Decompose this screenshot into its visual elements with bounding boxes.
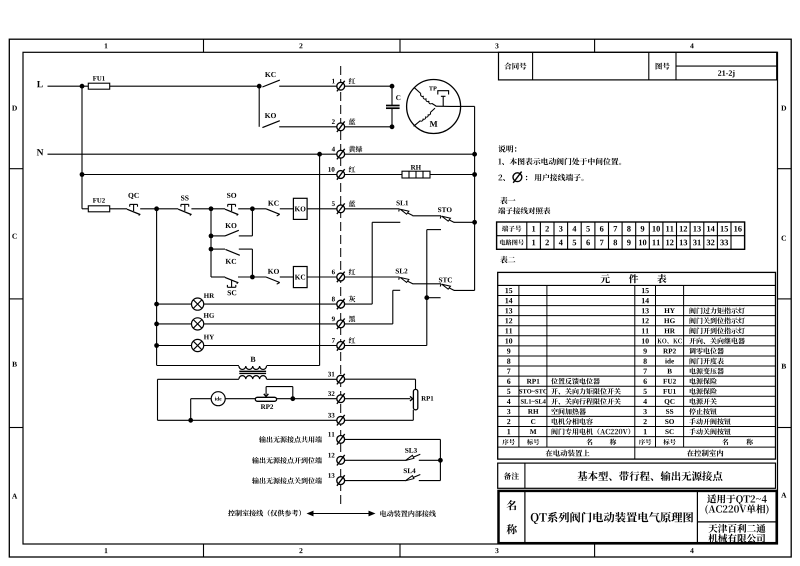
meter ide valve position (211, 392, 225, 406)
label SC (228, 290, 237, 295)
lamp HG closed-position (192, 318, 204, 330)
wire SS to SO (191, 208, 225, 210)
fuse FU1 (88, 83, 109, 89)
wire L phase line (48, 85, 260, 87)
label 说明 heading (498, 145, 516, 152)
pushbutton SO manual open (225, 209, 238, 214)
title block divider right horizontal (697, 521, 776, 523)
zone divider tick bottom band (399, 544, 401, 557)
terminal 9 number label (332, 316, 335, 321)
wire HR to terminal (204, 303, 338, 305)
zone label 3 bottom (495, 548, 498, 553)
note line 2 prefix (498, 175, 505, 182)
zone divider tick left band (9, 168, 23, 170)
wire terminal32 to RP1 wiper (344, 398, 410, 400)
terminal 10 number label (328, 167, 334, 172)
wire KC-KO branch vertical (258, 86, 260, 127)
zone label 2 bottom (299, 548, 302, 553)
zone label 4 bottom (690, 548, 693, 553)
zone label 1 top (105, 43, 108, 48)
terminal 7 user connection symbol (337, 342, 345, 350)
label KC bridge (226, 259, 237, 264)
label output common terminal (259, 436, 322, 443)
wire SL2 NC stub (393, 289, 400, 291)
component table row 6 (507, 379, 510, 384)
remark content (578, 471, 723, 481)
junction dot KO bridge left (209, 234, 214, 239)
circuit numbers row 2 (532, 240, 535, 246)
terminal 12 user connection symbol (337, 456, 345, 464)
terminal 12 number label (328, 453, 334, 458)
terminal 33 user connection symbol (337, 416, 345, 424)
wire ide return riser (190, 399, 192, 421)
fuse FU2 (88, 206, 109, 212)
terminal 6 number label (332, 270, 335, 275)
wire ide to RP2 (225, 398, 255, 400)
label SL2 (396, 269, 408, 274)
wire SL2 NC riser to terminal9 (392, 290, 394, 324)
component table row 2 (507, 419, 510, 424)
label 表一 (500, 197, 515, 204)
limit switch SL2 flag (400, 278, 412, 284)
junction dot KC/KO branch (257, 84, 262, 89)
wire terminal31 to RP1 (344, 378, 415, 380)
zone divider tick top band (594, 39, 596, 52)
zone label 1 bottom (105, 548, 108, 553)
node N label (37, 149, 44, 155)
terminal 2 wire color label 蓝 (349, 118, 356, 124)
junction dot rail to terminal10 line (80, 172, 85, 177)
label KC coil (295, 275, 305, 280)
wire terminal10 line left (82, 174, 337, 176)
zone label C right (781, 236, 785, 241)
terminal 5 wire color label 蓝 (349, 200, 356, 206)
zone label D right (781, 106, 786, 111)
label HY (204, 335, 214, 340)
label 电路图号 (500, 239, 524, 245)
wire HY to terminal (204, 345, 338, 347)
label RP1 (421, 396, 433, 400)
component table row 13 (505, 308, 512, 313)
label KO interlock (268, 269, 279, 274)
terminal 11 user connection symbol (337, 436, 345, 444)
label 称 of 名称 (507, 524, 517, 534)
label RP2 (261, 404, 273, 409)
wire ide left lead (191, 398, 212, 400)
junction dot RH line right rail (472, 172, 477, 177)
torque switch STO flag (442, 216, 454, 222)
wire N neutral line (48, 153, 475, 155)
component table column lines (518, 285, 520, 447)
junction dot output common (438, 458, 443, 463)
component table row 10 (505, 338, 512, 343)
wire terminal33 to RP1 (344, 419, 413, 421)
wire terminal13 to SL4 (344, 480, 405, 482)
terminal 31 user connection symbol (337, 375, 345, 383)
transformer B primary winding (239, 366, 267, 369)
limit switch SL3 flag (405, 454, 420, 460)
wire STC output to right rail (454, 289, 475, 291)
lamp HY torque (192, 339, 204, 351)
wire rail to HR (157, 303, 192, 305)
limit switch SL1 flag (400, 209, 412, 215)
label 图号 (656, 63, 670, 70)
wire SC to KO contact (238, 276, 266, 278)
zone divider tick bottom band (594, 544, 596, 557)
zone label A right (781, 493, 786, 498)
zone label C left (12, 234, 16, 239)
terminal 2 number label (332, 119, 335, 124)
label applicable model line1 (707, 494, 767, 504)
transformer B core (239, 370, 266, 372)
label KC (265, 72, 276, 77)
terminal map table frame (497, 222, 745, 249)
label applicable model line2 (705, 504, 768, 514)
relay coil KC (293, 267, 307, 288)
component table row 4 (507, 399, 511, 404)
junction dot rail HR (154, 302, 159, 307)
wire terminal1 to motor (344, 85, 392, 87)
transformer B secondary winding (239, 376, 267, 379)
remark box frame (498, 463, 776, 488)
label output closed-position terminal (252, 477, 322, 484)
label 端子号 (502, 226, 521, 232)
terminal 9 user connection symbol (337, 320, 345, 328)
junction dot N drop (317, 152, 322, 157)
terminal 10 wire color label 红 (349, 166, 356, 172)
wire right rail down to STC (474, 222, 476, 290)
label FU2 (93, 198, 105, 203)
terminal 7 wire color label 红 (349, 337, 356, 343)
drawing number cell divider (676, 65, 777, 67)
component table row 9 (507, 348, 510, 353)
node L label (37, 81, 43, 87)
junction dot STO output (472, 220, 477, 225)
terminal 32 user connection symbol (337, 395, 345, 403)
wire rail to HG (157, 323, 192, 325)
label KO bridge (225, 223, 236, 228)
note line 2 terminal symbol (513, 173, 522, 182)
terminal numbers row 1 (532, 226, 535, 232)
label SO (227, 193, 236, 198)
RP2 wiper arrow (264, 394, 269, 397)
motor internal output wire (436, 105, 461, 107)
zone label 3 top (495, 43, 498, 48)
label control-room wiring note (228, 510, 301, 517)
junction dot KC bridge left (209, 247, 214, 252)
zone label 2 top (299, 43, 302, 48)
component table row 11 (505, 328, 512, 333)
zone divider tick top band (203, 39, 205, 52)
label drawing number 21-2j (718, 70, 735, 77)
wire left rail lamps (156, 209, 158, 365)
label 在控制室内 (687, 450, 723, 457)
wire SO to KC contact (238, 208, 266, 210)
label B transformer (251, 357, 256, 362)
label 合同号 (504, 62, 526, 69)
junction dot ide return (188, 418, 193, 423)
label SL4 (404, 468, 416, 473)
wire HG to terminal (204, 323, 338, 325)
component table row 1 (507, 429, 510, 434)
zone label A left (12, 494, 17, 499)
wire N drop to transformer (319, 154, 321, 365)
terminal 31 number label (328, 372, 334, 377)
label ide (215, 397, 222, 401)
wire STO to right rail (454, 221, 475, 223)
terminal 7 number label (332, 338, 335, 343)
title block thick frame (499, 491, 777, 543)
label KO coil (295, 206, 306, 211)
component table header2 line (498, 446, 776, 448)
note line 2 text (526, 174, 584, 181)
label KO (265, 113, 276, 118)
wire terminal8 to SL1 riser (344, 303, 372, 305)
wire KO bridge right riser (251, 209, 253, 236)
component table row 15 (505, 288, 512, 293)
zone divider tick right band (778, 168, 792, 170)
terminal map table column dividers (526, 222, 528, 249)
label FU1 (93, 76, 105, 81)
wire STO/STC NC riser to terminal7 (426, 230, 428, 346)
label HR (204, 293, 214, 298)
junction dot STC stub (424, 295, 429, 300)
capacitor C1 plates (386, 105, 400, 107)
wire terminal6 to SL2 (344, 276, 399, 278)
junction dot capacitor top (390, 84, 395, 89)
wire lower branch line (211, 276, 225, 278)
wire SL2 to STC (413, 283, 442, 285)
label TP (429, 86, 437, 90)
terminal 9 wire color label 黑 (349, 316, 355, 323)
label company line1 (708, 524, 765, 533)
component table row 3 (507, 409, 510, 414)
motor winding upper (414, 87, 421, 93)
junction dot rail HY (154, 343, 159, 348)
contract-no block box (499, 52, 777, 80)
terminal 8 number label (332, 297, 335, 302)
junction dot SC branch right (250, 275, 255, 280)
terminal 1 wire color label 红 (349, 78, 356, 84)
label 名 of 名称 (507, 500, 517, 510)
resistor RH heater box (402, 171, 430, 178)
label company line2 (708, 534, 765, 543)
thermal protector TP contact (438, 91, 449, 95)
contact KC self-holding (NO) (211, 248, 225, 250)
terminal 4 wire color label 黄绿 (349, 146, 363, 153)
potentiometer RP1 body (413, 389, 417, 409)
junction dot N end right rail (472, 152, 477, 157)
terminal 8 wire color label 灰 (349, 296, 356, 303)
title block divider name (524, 491, 526, 543)
wire rail to HY (157, 345, 192, 347)
wire terminal33 line (158, 419, 338, 421)
contact KC (open direction, NO) (262, 80, 279, 87)
component table footer divider (634, 447, 636, 459)
wire KO coil to terminal5 (307, 208, 337, 210)
label SL3 (405, 448, 417, 453)
zone divider tick left band (9, 427, 23, 429)
terminal 8 user connection symbol (337, 300, 345, 308)
wire RP2 wiper link (266, 386, 293, 388)
junction dot RP2 wiper tap (290, 396, 295, 401)
contract-no cell divider (532, 52, 534, 80)
title text QT series (531, 512, 693, 524)
wire STC NC stub (427, 297, 441, 299)
wire terminal5 to SL1 (344, 208, 399, 210)
label 备注 (504, 472, 519, 479)
wire KC bridge right riser (251, 249, 253, 277)
junction dot L rail (80, 84, 85, 89)
label 端子接线对照表 (498, 207, 550, 214)
switch QC power knife switch (127, 209, 140, 214)
terminal 4 user connection symbol (337, 150, 345, 158)
terminal 10 user connection symbol (337, 171, 345, 179)
wire terminal12 to SL3 (344, 459, 405, 461)
torque switch STC flag (442, 284, 454, 290)
label SL1 (396, 201, 408, 206)
pushbutton SC manual close (225, 277, 238, 282)
terminal 4 number label (332, 147, 335, 152)
junction dot rail HG (154, 322, 159, 327)
terminal 11 number label (328, 432, 334, 437)
junction dot SO branch left (209, 206, 214, 211)
wire SL4 to common (419, 480, 441, 482)
wire terminal10 to RH (344, 174, 402, 176)
remark box divider (524, 463, 526, 488)
wire motor output to right rail (461, 105, 475, 107)
wire capacitor leads (391, 86, 393, 105)
zone label 4 top (690, 43, 693, 48)
label STC (439, 278, 452, 283)
wire FU2 to QC (110, 208, 127, 210)
zone label D left (12, 106, 17, 111)
label SS (181, 195, 189, 200)
zone divider tick left band (9, 298, 23, 300)
component table column headers (502, 439, 514, 445)
relay coil KO (293, 198, 307, 219)
terminal 6 user connection symbol (337, 273, 345, 281)
wire transformer primary right (267, 365, 320, 367)
component table row lines (498, 295, 776, 297)
label QC (128, 193, 138, 199)
wire QC to SS (140, 208, 178, 210)
wire terminal11 line (344, 438, 440, 440)
terminal strip dashed line (340, 66, 342, 504)
title block divider right (696, 491, 698, 543)
wire STO NC stub (427, 229, 441, 231)
motor winding lower (414, 121, 421, 127)
wire SL1 to STO (413, 215, 442, 217)
label 在电动装置上 (546, 450, 590, 457)
label RH (411, 165, 421, 170)
terminal 13 number label (328, 473, 334, 478)
component table frame (498, 272, 776, 459)
junction dot capacitor bottom (390, 124, 395, 129)
wire KO bridge left riser (210, 209, 212, 277)
component table row 12 (505, 318, 512, 323)
label 表二 (500, 256, 515, 263)
zone label B right (781, 364, 786, 369)
junction dot SO branch right (250, 206, 255, 211)
terminal map table row divider (497, 235, 745, 237)
label HG (204, 313, 215, 318)
wire KC coil to terminal6 (307, 276, 337, 278)
note line 1 (498, 158, 621, 165)
wire SL1 NC riser to terminal8 (371, 222, 373, 304)
wire SL3 to common (419, 459, 441, 461)
wire transformer primary left (157, 365, 239, 367)
zone label B left (12, 362, 17, 367)
zone divider tick top band (399, 39, 401, 52)
contact KO interlock (NC) (266, 277, 280, 283)
pushbutton SS stop (178, 209, 191, 214)
component table row 7 (507, 369, 510, 374)
component table header row line (498, 284, 776, 286)
terminal 1 user connection symbol (337, 82, 345, 90)
potentiometer RP2 body (255, 397, 276, 401)
contact KO (close direction, NO) (262, 121, 279, 128)
terminal 6 wire color label 红 (349, 269, 356, 275)
wire L rail vertical (81, 86, 83, 209)
label M motor (430, 121, 438, 127)
limit switch SL4 flag (405, 475, 420, 481)
wire RP2 to terminal32 (277, 398, 338, 400)
zone divider tick right band (778, 298, 792, 300)
contact KO self-holding (NO) (211, 235, 225, 237)
terminal 5 number label (332, 201, 335, 206)
label KC interlock (268, 201, 279, 206)
contact KC interlock (NC) (266, 209, 280, 215)
label 元件表 header (601, 274, 667, 283)
label output open-position terminal (252, 457, 322, 464)
wire rail to FU2 (82, 208, 88, 210)
terminal 1 number label (332, 79, 335, 84)
terminal 33 number label (328, 413, 334, 418)
junction dot left rail tap (154, 206, 159, 211)
lamp HR open-position (192, 298, 204, 310)
component table row 14 (505, 298, 512, 303)
zone divider tick bottom band (203, 544, 205, 557)
wire secondary right to terminal31 (267, 378, 338, 380)
component table row 8 (507, 359, 510, 364)
terminal 32 number label (328, 391, 334, 396)
wire SL1 NC stub (372, 221, 400, 223)
wire secondary left (158, 378, 239, 380)
terminal 13 user connection symbol (337, 477, 345, 485)
label STO (438, 207, 452, 212)
wire terminal2 to motor (344, 126, 392, 128)
zone divider tick right band (778, 427, 792, 429)
component table row 5 (507, 389, 510, 394)
label actuator internal wiring note (380, 510, 436, 517)
terminal 2 user connection symbol (337, 123, 345, 131)
wire RH to right rail (430, 174, 475, 176)
motor M1 body circle (407, 80, 461, 134)
label C capacitor (396, 95, 400, 100)
boundary double arrow (311, 513, 371, 515)
terminal 5 user connection symbol (337, 205, 345, 213)
